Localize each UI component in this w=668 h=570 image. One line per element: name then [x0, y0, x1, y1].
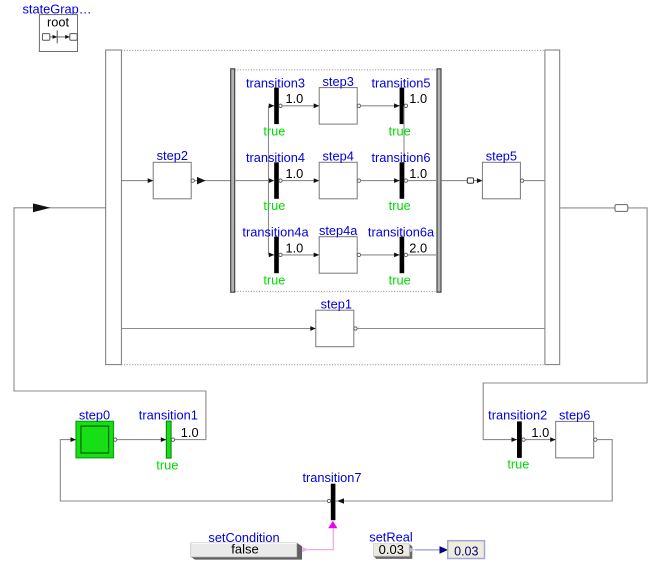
step0 (initial, active): [76, 408, 114, 458]
transition T3: [246, 75, 305, 138]
setCondition block: [191, 530, 302, 560]
svg-text:transition2: transition2: [488, 408, 547, 423]
wire inner join to step5: [441, 180, 482, 182]
transition T1 (enabled, green): [139, 408, 199, 473]
svg-text:1.0: 1.0: [409, 166, 427, 181]
svg-text:true: true: [389, 272, 411, 287]
svg-text:1.0: 1.0: [286, 240, 304, 255]
svg-text:true: true: [156, 457, 178, 472]
svg-text:transition4a: transition4a: [242, 224, 309, 239]
wire step2 to inner parallel: [191, 179, 194, 182]
transition T6: [371, 150, 430, 213]
svg-text:step5: step5: [486, 149, 517, 164]
wire transition3 to step3: [279, 104, 282, 107]
step1: [316, 297, 354, 347]
wire transition2 to step6: [522, 438, 525, 441]
wire step4 to transition6: [357, 179, 360, 182]
wire setReal to display: [410, 548, 415, 552]
svg-text:true: true: [389, 123, 411, 138]
step3: [319, 74, 357, 124]
transition7 condition port (magenta): [328, 521, 337, 528]
wire transition7 to step0: [327, 499, 330, 502]
svg-text:false: false: [231, 542, 258, 557]
svg-text:step2: step2: [157, 148, 188, 163]
transition T6a: [368, 224, 435, 287]
svg-text:true: true: [507, 457, 529, 472]
wire transition4a to step4a: [279, 253, 282, 256]
svg-text:step3: step3: [323, 74, 354, 89]
wire step1 to parallel join: [354, 327, 357, 330]
inner parallel right bar: [437, 69, 441, 292]
inner parallel left bar: [231, 69, 235, 292]
svg-text:step6: step6: [559, 408, 590, 423]
wire step6 to transition7: [594, 438, 597, 441]
transition T4a: [242, 224, 309, 287]
step2: [153, 148, 191, 199]
transition T7: [302, 470, 361, 520]
parallel right bar: [545, 50, 560, 365]
svg-text:transition4: transition4: [246, 150, 305, 165]
svg-text:true: true: [263, 123, 285, 138]
svg-text:transition6a: transition6a: [368, 224, 435, 239]
svg-text:root: root: [47, 15, 69, 30]
svg-text:transition3: transition3: [246, 75, 305, 90]
svg-text:0.03: 0.03: [379, 542, 404, 557]
parallel left bar: [106, 50, 122, 365]
wire step4a to transition6a: [357, 253, 360, 256]
svg-text:true: true: [263, 198, 285, 213]
svg-text:step4a: step4a: [319, 223, 358, 238]
parallel outer dotted frame: [121, 49, 545, 51]
wire transition1 to parallel inPort: [14, 208, 206, 440]
inner parallel dotted frame: [235, 69, 437, 71]
transition1 output port: [171, 438, 174, 441]
svg-text:step4: step4: [323, 149, 354, 164]
wire step5 to parallel join: [520, 179, 523, 182]
wire parallel split to step2: [121, 180, 153, 182]
svg-text:1.0: 1.0: [531, 425, 549, 440]
wire transition6 to join: [404, 179, 407, 182]
wire step0 to transition1: [114, 438, 117, 441]
step4: [319, 149, 357, 199]
svg-text:1.0: 1.0: [286, 91, 304, 106]
svg-text:2.0: 2.0: [409, 240, 427, 255]
svg-text:step0: step0: [79, 408, 110, 423]
transition T2: [488, 408, 549, 472]
svg-text:1.0: 1.0: [181, 425, 199, 440]
step4a: [319, 223, 358, 273]
stateGraphRoot block: [39, 15, 77, 52]
numeric display block: [448, 541, 485, 559]
wire parallel split to step1: [121, 328, 315, 330]
svg-text:1.0: 1.0: [409, 91, 427, 106]
pink wire setCondition to transition7: [301, 529, 333, 550]
wire inner split branch: [235, 180, 269, 182]
wire transition5 down to join row: [404, 104, 407, 107]
transition T4: [246, 150, 305, 213]
svg-text:true: true: [263, 272, 285, 287]
wire parallel outPort to transition2: [483, 208, 647, 440]
wire step3 to transition5: [357, 104, 360, 107]
svg-text:transition6: transition6: [371, 150, 430, 165]
wire transition6a to join: [404, 253, 407, 256]
svg-text:0.03: 0.03: [454, 544, 478, 558]
svg-text:true: true: [389, 198, 411, 213]
wire transition4 to step4: [279, 179, 282, 182]
svg-text:1.0: 1.0: [286, 166, 304, 181]
setReal block: [369, 530, 412, 559]
step6: [556, 408, 594, 458]
svg-text:transition1: transition1: [139, 408, 198, 423]
step5: [482, 149, 520, 199]
svg-text:step1: step1: [321, 297, 352, 312]
svg-text:transition5: transition5: [371, 75, 430, 90]
transition T5: [371, 75, 430, 138]
svg-text:transition7: transition7: [302, 470, 361, 485]
